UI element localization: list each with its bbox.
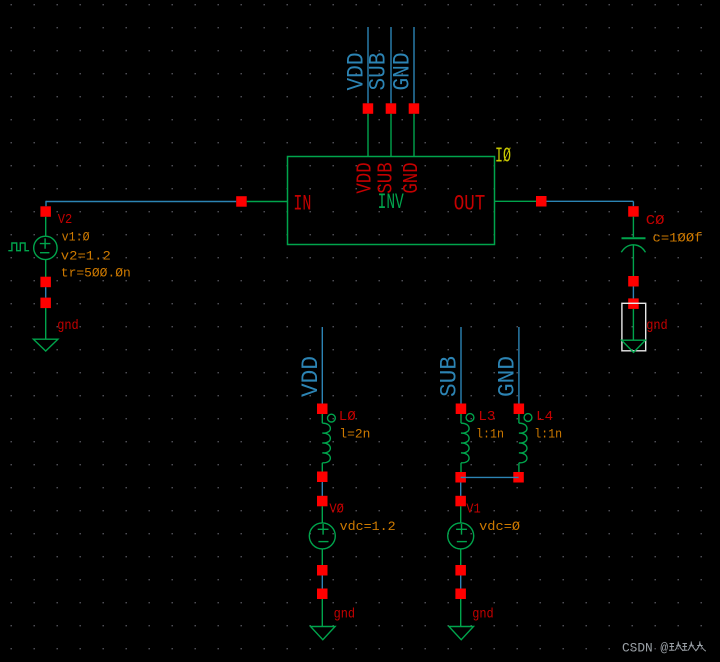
wire net GND bottom vertical [518, 327, 520, 404]
wire L3 junction down to V1 [460, 483, 462, 496]
inductor L4 bottom lead [518, 463, 520, 472]
svg-text:vdc=1.2: vdc=1.2 [340, 519, 396, 534]
wire joining L3 and L4 bottoms [461, 476, 519, 478]
V0 bottom pin square [317, 565, 328, 576]
svg-text:SUB: SUB [376, 162, 399, 193]
inductor L4 marker circle [524, 414, 532, 422]
wire corner at C0 top [632, 201, 634, 206]
pin stub GND of U-box [413, 114, 415, 157]
svg-text:CSDN @: CSDN @ [622, 641, 668, 656]
svg-text:v2=1.2: v2=1.2 [61, 249, 111, 264]
wire net GND top vertical [413, 27, 415, 103]
ground symbol triangle (bottom middle) [311, 627, 336, 640]
inductor L0 marker circle [328, 414, 336, 422]
watermark CSDN @jiu-jiu-jiu [622, 641, 706, 656]
C0 bottom pin square [628, 276, 639, 287]
voltage source V0 top stub [321, 506, 323, 523]
wire C0 to gnd [632, 287, 634, 299]
svg-text:GND: GND [495, 356, 521, 397]
wire V0 to gnd [321, 576, 323, 589]
pin stub VDD of U-box [367, 114, 369, 157]
svg-text:LØ: LØ [339, 409, 356, 425]
gnd pin square (bottom right) [455, 589, 466, 600]
inductor L3 marker circle [466, 414, 474, 422]
V2 bottom pin square [40, 277, 51, 288]
svg-text:VDD: VDD [298, 356, 324, 397]
svg-text:l:1n: l:1n [534, 427, 562, 442]
V1 plus sign [456, 524, 467, 535]
voltage source V2 body [34, 236, 57, 259]
voltage source V1 body [448, 523, 474, 549]
inductor L0 coil [322, 423, 330, 463]
svg-text:L3: L3 [478, 409, 495, 425]
pin square GND of U-box [409, 103, 420, 114]
ground symbol stem (bottom middle) [321, 599, 323, 627]
wire stub square on OUT net [536, 196, 547, 207]
V2 minus sign [40, 252, 49, 254]
voltage source V1 top pin square [455, 496, 466, 507]
pin stub IN of U-box [247, 201, 288, 203]
wire net SUB bottom vertical [460, 327, 462, 404]
svg-text:VDD: VDD [355, 162, 378, 193]
wire from V2 to IN (horizontal) [46, 201, 236, 203]
capacitor C0 top plate [622, 237, 646, 239]
inductor L0 top lead [321, 414, 323, 423]
svg-text:l:1n: l:1n [476, 427, 504, 442]
ground symbol stem (bottom right) [460, 599, 462, 627]
V2 plus sign [40, 238, 51, 248]
wire net SUB top vertical [390, 27, 392, 103]
pin stub SUB of U-box [390, 114, 392, 157]
capacitor C0 top pin square [628, 206, 639, 217]
inductor L4 coil [519, 423, 527, 463]
svg-text:VØ: VØ [329, 502, 344, 518]
V0 minus sign [318, 541, 328, 543]
capacitor C0 bottom stub [632, 245, 634, 277]
inductor L3 top lead [460, 414, 462, 423]
inductor L0 top pin square [317, 404, 328, 415]
svg-text:v1:Ø: v1:Ø [62, 230, 90, 245]
V0 plus sign [318, 524, 329, 535]
ground symbol stem (left) [45, 308, 47, 339]
voltage source V0 top pin square [317, 496, 328, 507]
capacitor C0 bottom plate (arc) [621, 245, 645, 253]
pin square SUB of U-box [386, 103, 397, 114]
wire L0 to V0 [321, 482, 323, 496]
capacitor C0 top stub [632, 217, 634, 238]
gnd pin square (left) [40, 298, 51, 309]
svg-text:SUB: SUB [437, 356, 463, 397]
ground symbol triangle (right) [622, 340, 646, 352]
wire V1 to gnd [460, 576, 462, 589]
ground symbol triangle (bottom right) [449, 627, 474, 640]
inductor L0 bottom pin square [317, 472, 328, 483]
voltage source V1 bottom stub [460, 549, 462, 565]
inductor L3 top pin square [456, 404, 467, 415]
voltage source V2 bottom stub [45, 260, 47, 277]
inductor L3 coil [461, 423, 469, 463]
voltage source V2 top stub [45, 217, 47, 237]
ground symbol triangle (left) [33, 339, 58, 351]
svg-text:gnd: gnd [646, 319, 668, 334]
svg-text:gnd: gnd [334, 608, 356, 623]
svg-text:l=2n: l=2n [339, 427, 370, 442]
svg-text:vdc=Ø: vdc=Ø [479, 519, 520, 534]
svg-text:gnd: gnd [472, 608, 494, 623]
svg-text:V2: V2 [58, 212, 73, 228]
svg-text:GND: GND [390, 53, 416, 91]
ground symbol stem (right) [632, 309, 634, 340]
wire net VDD bottom vertical [321, 327, 323, 404]
inductor L4 top pin square [514, 404, 525, 415]
V1 bottom pin square [455, 565, 466, 576]
svg-text:V1: V1 [466, 502, 481, 518]
svg-text:OUT: OUT [454, 191, 486, 216]
V1 minus sign [457, 541, 467, 543]
pin square VDD of U-box [363, 103, 374, 114]
inductor L4 bottom pin square [513, 472, 524, 483]
voltage source V1 top stub [460, 506, 462, 523]
voltage source V0 bottom stub [321, 549, 323, 565]
svg-text:L4: L4 [536, 409, 553, 425]
inductor L3 bottom pin square [455, 472, 466, 483]
inverter block I0 body [288, 157, 495, 245]
pin stub OUT of U-box [495, 200, 537, 202]
wire corner at V2 top [45, 201, 47, 207]
V2 pulse waveform glyph [8, 243, 29, 251]
voltage source V2 pin square (top) [40, 206, 51, 217]
wire net VDD top vertical [367, 27, 369, 103]
inductor L3 bottom lead [460, 463, 462, 472]
wire V2 to gnd [45, 287, 47, 298]
svg-text:CØ: CØ [646, 213, 665, 229]
inductor L4 top lead [518, 414, 520, 423]
inductor L0 bottom lead [321, 463, 323, 472]
voltage source V0 body [309, 523, 335, 549]
svg-text:IØ: IØ [495, 145, 511, 168]
gnd pin square (bottom middle) [317, 589, 328, 600]
svg-text:SUB: SUB [366, 53, 392, 91]
svg-text:IN: IN [293, 191, 311, 216]
svg-text:c=1ØØf: c=1ØØf [653, 230, 703, 245]
svg-text:tr=5ØØ.Øn: tr=5ØØ.Øn [61, 265, 131, 280]
selection highlight box around gnd [622, 303, 646, 351]
gnd pin square (right) [628, 298, 639, 309]
svg-text:GND: GND [401, 162, 424, 193]
svg-text:gnd: gnd [57, 319, 78, 334]
wire OUT to C0 (horizontal) [547, 200, 634, 202]
wire stub square on IN net [236, 196, 247, 207]
